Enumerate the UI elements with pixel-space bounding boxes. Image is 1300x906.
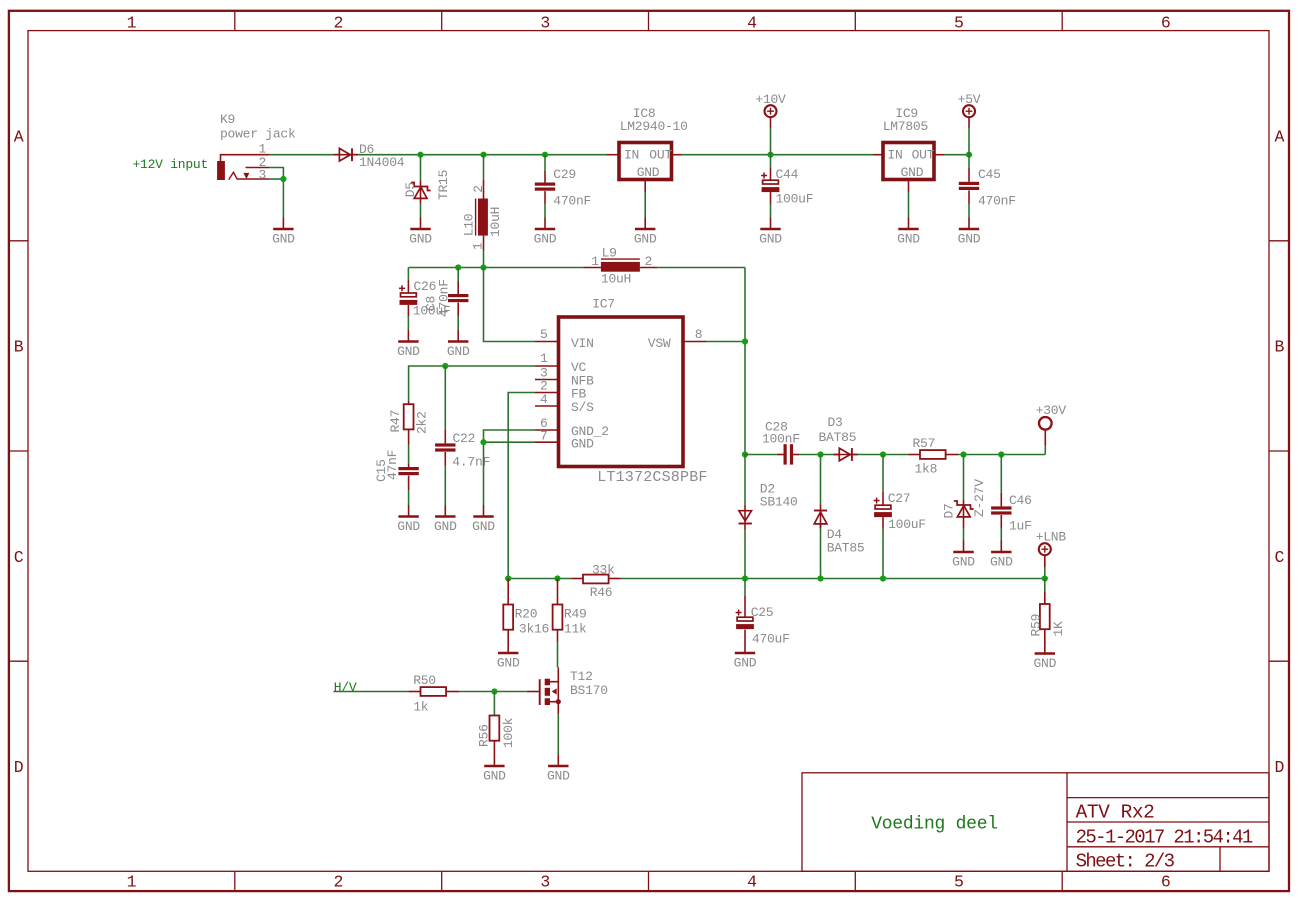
svg-text:R56: R56: [476, 724, 491, 747]
svg-text:OUT: OUT: [912, 148, 935, 163]
svg-text:C22: C22: [453, 431, 476, 446]
ground D7: [952, 541, 975, 570]
wire D3 to R57: [858, 454, 909, 456]
diode D4 BAT85: [814, 504, 865, 555]
svg-text:C26: C26: [414, 279, 437, 294]
svg-text:D5: D5: [403, 182, 418, 197]
ground T12: [547, 755, 570, 784]
wire IC8 gnd: [644, 192, 646, 218]
svg-text:GND: GND: [637, 165, 660, 180]
wire C28 left: [745, 454, 778, 456]
svg-text:470nF: 470nF: [553, 194, 591, 209]
svg-text:LM7805: LM7805: [883, 119, 928, 134]
resistor R46 33k: [572, 563, 621, 601]
svg-text:7: 7: [540, 429, 548, 444]
connector K9 power jack: [217, 112, 296, 182]
svg-text:10uH: 10uH: [601, 272, 631, 287]
svg-text:5: 5: [540, 327, 548, 342]
svg-text:1k8: 1k8: [915, 462, 938, 477]
svg-text:470uF: 470uF: [752, 632, 790, 647]
resistor R47 2k2: [388, 401, 430, 445]
capacitor C44 100uF: [761, 167, 813, 207]
capacitor C22 4.7nF: [435, 430, 490, 469]
wire C26 branch: [407, 268, 409, 331]
wire R57 to +30V corner: [958, 445, 1045, 455]
ground jack: [272, 218, 295, 247]
wire C45 branch: [968, 155, 970, 218]
diode D3 BAT85: [819, 415, 858, 461]
svg-text:1k: 1k: [413, 700, 429, 715]
junction C46 node: [998, 451, 1004, 457]
node H/V label: [334, 680, 357, 695]
junction R20/FB node: [505, 575, 511, 581]
wire +LNB to rail: [1044, 567, 1046, 578]
svg-text:IN: IN: [887, 148, 902, 163]
svg-text:1: 1: [471, 242, 486, 250]
supply +10V: [755, 92, 786, 155]
svg-text:2: 2: [334, 13, 344, 32]
ground C46: [990, 541, 1013, 570]
svg-text:+10V: +10V: [755, 92, 786, 107]
ground C25: [734, 642, 757, 671]
svg-text:4: 4: [747, 872, 757, 891]
wire R50 to gate: [459, 691, 526, 693]
ground C22: [434, 505, 457, 534]
svg-text:D3: D3: [828, 415, 843, 430]
svg-text:GND: GND: [571, 437, 594, 452]
wire D7 branch: [963, 455, 965, 501]
ground C45: [958, 218, 981, 247]
wire VC net: [409, 366, 535, 401]
wire C44 branch: [770, 155, 772, 218]
svg-text:4.7nF: 4.7nF: [452, 454, 490, 469]
junction pin6/pin7 tie: [480, 439, 486, 445]
diode D2 SB140: [739, 482, 798, 530]
wire IC9 out: [944, 154, 969, 156]
svg-text:BAT85: BAT85: [827, 541, 865, 556]
pin IC7.6 GND_2: [535, 416, 559, 431]
wire IC8 out to IC9 in: [682, 154, 874, 156]
svg-text:power jack: power jack: [220, 126, 296, 141]
ground C15: [397, 505, 420, 534]
svg-text:TR15: TR15: [436, 170, 451, 200]
svg-text:R57: R57: [913, 436, 936, 451]
resistor R50 1k: [409, 673, 460, 714]
svg-text:+5V: +5V: [958, 92, 981, 107]
inductor L10 10uH: [462, 180, 504, 250]
supply +30V: [1036, 403, 1067, 445]
capacitor C25 470uF: [736, 579, 790, 647]
wire D4 branch: [820, 455, 822, 579]
junction R49 node: [554, 575, 560, 581]
wire FB net: [508, 393, 535, 579]
svg-text:2k2: 2k2: [415, 411, 430, 434]
capacitor C8 470nF: [424, 279, 469, 317]
node +12V input label: [133, 157, 209, 172]
capacitor C46 1uF: [991, 493, 1032, 534]
regulator IC9 LM7805: [873, 106, 944, 192]
wire R47 to C15: [408, 445, 410, 464]
ground R20: [497, 642, 520, 671]
svg-text:1uF: 1uF: [1009, 519, 1032, 534]
svg-text:SB140: SB140: [760, 495, 798, 510]
wire L10 to lower rail: [483, 250, 485, 268]
svg-text:100uF: 100uF: [888, 517, 926, 532]
wire jack pin2/pin3 to GND: [269, 168, 283, 218]
svg-text:C46: C46: [1009, 493, 1032, 508]
junction C25 node: [742, 575, 748, 581]
resistor R49 11k: [553, 579, 587, 642]
wire VIN drop: [484, 268, 536, 342]
wire C15 to gnd: [408, 490, 410, 505]
svg-text:R46: R46: [590, 585, 613, 600]
junction L10/VIN tap: [480, 264, 486, 270]
svg-text:R20: R20: [515, 607, 538, 622]
svg-text:25-1-2017 21:54:41: 25-1-2017 21:54:41: [1076, 826, 1253, 848]
ground IC9: [897, 218, 920, 247]
svg-text:VSW: VSW: [648, 336, 671, 351]
svg-text:Voeding deel: Voeding deel: [871, 815, 998, 835]
resistor R57 1k8: [909, 436, 959, 477]
svg-text:A: A: [14, 127, 24, 146]
junction VSW/C28/D2 node: [742, 451, 748, 457]
svg-text:R47: R47: [388, 410, 403, 433]
capacitor C45 470nF: [959, 167, 1016, 209]
wire D2 branch: [744, 455, 746, 579]
svg-text:3: 3: [540, 872, 550, 891]
svg-text:1N4004: 1N4004: [359, 155, 405, 170]
pin IC7.2 FB: [535, 379, 559, 394]
junction VC/C22: [442, 363, 448, 369]
svg-text:S/S: S/S: [571, 400, 594, 415]
capacitor C27 100uF: [874, 491, 926, 532]
svg-text:3: 3: [259, 167, 267, 182]
pin IC7.5 VIN: [535, 327, 559, 342]
svg-text:4: 4: [540, 392, 548, 407]
wire H/V to R50: [334, 691, 409, 693]
svg-text:R49: R49: [564, 607, 587, 622]
wire second rail: [408, 268, 745, 342]
ground C26: [397, 330, 420, 359]
pin IC7.3 NFB: [535, 366, 559, 381]
svg-text:3k16: 3k16: [519, 622, 549, 637]
wire T12 source to gnd: [557, 714, 559, 754]
ground IC7 gnd net: [472, 505, 495, 534]
inductor L9 10uH: [584, 245, 658, 286]
svg-text:LT1372CS8PBF: LT1372CS8PBF: [597, 469, 707, 486]
junction +10V tap: [767, 152, 773, 158]
wire C29 branch: [544, 155, 546, 218]
svg-text:1: 1: [540, 351, 548, 366]
junction +LNB/R59 node: [1042, 575, 1048, 581]
svg-text:1K: 1K: [1051, 621, 1066, 637]
supply +5V: [958, 92, 981, 155]
svg-text:C29: C29: [553, 167, 576, 182]
svg-text:1: 1: [127, 13, 137, 32]
ground R56: [483, 755, 506, 784]
svg-text:+30V: +30V: [1036, 403, 1067, 418]
svg-text:C: C: [14, 548, 24, 567]
supply +LNB: [1036, 529, 1067, 567]
title block: [802, 773, 1269, 873]
svg-text:2: 2: [334, 872, 344, 891]
transistor T12 BS170: [527, 668, 608, 715]
svg-text:33k: 33k: [592, 563, 615, 578]
svg-text:R59: R59: [1028, 614, 1043, 637]
svg-text:B: B: [1274, 338, 1284, 357]
ground D5: [409, 218, 432, 247]
svg-text:100k: 100k: [501, 717, 516, 748]
diode D5 TR15 (suppressor): [403, 170, 451, 204]
resistor R59 1K: [1028, 579, 1065, 644]
svg-text:6: 6: [1161, 13, 1171, 32]
wire VSW to +30V column: [706, 342, 745, 455]
ground C8: [447, 330, 470, 359]
svg-text:47nF: 47nF: [385, 450, 400, 480]
svg-text:BAT85: BAT85: [819, 430, 857, 445]
junction L10 tap: [480, 152, 486, 158]
svg-text:T12: T12: [570, 669, 593, 684]
svg-text:BS170: BS170: [570, 683, 608, 698]
svg-text:C: C: [1274, 548, 1284, 567]
svg-text:GND: GND: [901, 165, 924, 180]
svg-text:D7: D7: [941, 503, 956, 518]
pin IC7.8 VSW: [683, 327, 706, 342]
svg-text:1: 1: [127, 872, 137, 891]
wire C8 branch: [457, 268, 459, 331]
junction D4 rail node: [817, 575, 823, 581]
ground C29: [534, 218, 557, 247]
wire bottom rail: [508, 578, 1045, 580]
pin IC7.1 VC: [535, 351, 559, 366]
wire C28 to D3: [799, 454, 834, 456]
wire +12V rail: [269, 154, 607, 156]
junction C8 tap: [455, 264, 461, 270]
pin IC7.4 S/S: [535, 392, 559, 407]
svg-text:10uH: 10uH: [488, 207, 503, 237]
svg-text:4: 4: [747, 13, 757, 32]
svg-text:5: 5: [954, 13, 964, 32]
wire R49 to T12 drain: [557, 642, 559, 668]
svg-text:IC7: IC7: [592, 296, 615, 311]
svg-text:470nF: 470nF: [437, 279, 452, 317]
capacitor C26 100uF: [399, 279, 451, 319]
svg-text:C27: C27: [888, 491, 911, 506]
svg-text:C45: C45: [978, 167, 1001, 182]
svg-text:2: 2: [645, 254, 653, 269]
wire L10 branch: [483, 155, 485, 180]
svg-text:6: 6: [1161, 872, 1171, 891]
junction C27 node: [880, 451, 886, 457]
svg-text:100uF: 100uF: [776, 192, 814, 207]
svg-text:B: B: [14, 338, 24, 357]
junction C29 tap: [542, 152, 548, 158]
svg-text:ATV Rx2: ATV Rx2: [1076, 802, 1155, 824]
svg-text:VIN: VIN: [571, 336, 594, 351]
svg-text:L10: L10: [462, 214, 477, 237]
svg-text:8: 8: [695, 327, 703, 342]
svg-text:3: 3: [540, 13, 550, 32]
wire T12 drain: [557, 667, 560, 669]
capacitor C28 100nF: [762, 419, 800, 464]
svg-text:Sheet: 2/3: Sheet: 2/3: [1076, 850, 1175, 872]
svg-text:L9: L9: [602, 245, 617, 260]
pin IC7.7 GND: [535, 429, 559, 444]
resistor R56 100k: [476, 692, 516, 755]
resistor R20 3k16: [503, 579, 549, 642]
svg-text:A: A: [1274, 127, 1284, 146]
junction R56 node: [491, 688, 497, 694]
ground IC8: [634, 218, 657, 247]
svg-text:1: 1: [591, 254, 599, 269]
svg-text:K9: K9: [220, 112, 235, 127]
svg-text:470nF: 470nF: [978, 194, 1016, 209]
svg-text:2: 2: [471, 185, 486, 193]
svg-text:+12V input: +12V input: [133, 157, 209, 172]
junction VSW node: [742, 338, 748, 344]
svg-text:C25: C25: [751, 605, 774, 620]
diode D6 1N4004: [334, 142, 405, 170]
svg-text:C44: C44: [776, 167, 799, 182]
junction +5V tap: [966, 152, 972, 158]
wire C46 branch: [1000, 455, 1002, 541]
svg-text:H/V: H/V: [334, 680, 357, 695]
wire C27 branch: [882, 455, 884, 579]
wire D5 branch: [420, 155, 422, 218]
junction jack pin3: [280, 176, 286, 182]
svg-text:+LNB: +LNB: [1036, 529, 1067, 544]
junction D4 node: [817, 451, 823, 457]
junction D7 node: [960, 451, 966, 457]
junction D5 tap: [417, 152, 423, 158]
capacitor C29 470nF: [535, 167, 591, 209]
capacitor C15 47nF: [374, 450, 419, 490]
svg-text:5: 5: [954, 872, 964, 891]
junction C27 rail node: [880, 575, 886, 581]
svg-text:Z-27V: Z-27V: [972, 479, 987, 517]
svg-text:D: D: [1274, 758, 1284, 777]
regulator IC8 LM2940-10: [607, 106, 688, 192]
diode D7 Z-27V (zener): [941, 479, 987, 541]
svg-text:LM2940-10: LM2940-10: [620, 119, 688, 134]
svg-text:11k: 11k: [564, 622, 587, 637]
ic IC7 LT1372CS8PBF: [559, 296, 708, 486]
wire C22 branch: [444, 366, 446, 505]
svg-text:R50: R50: [413, 673, 436, 688]
ground R59: [1033, 642, 1056, 671]
ground C44: [759, 218, 782, 247]
svg-text:IN: IN: [624, 148, 639, 163]
wire IC9 gnd: [908, 192, 910, 218]
svg-text:100nF: 100nF: [762, 431, 800, 446]
svg-text:D: D: [14, 758, 24, 777]
svg-text:OUT: OUT: [649, 148, 672, 163]
wire GND_2/GND pins tie: [484, 430, 536, 505]
